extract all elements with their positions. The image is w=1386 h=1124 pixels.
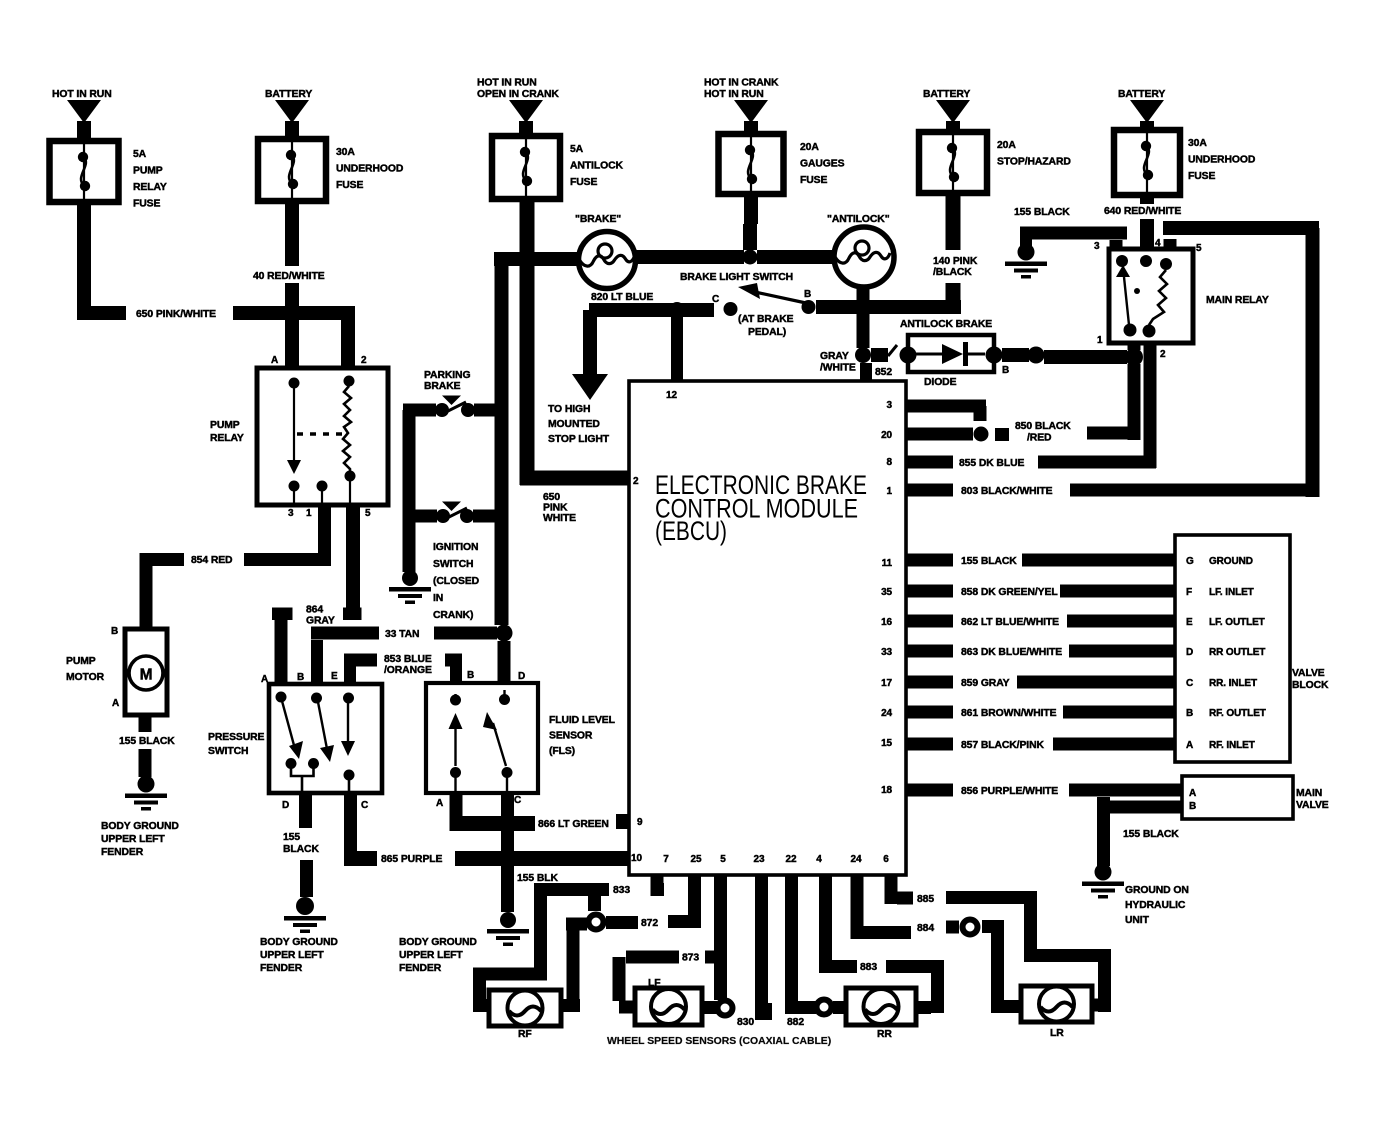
svg-text:A: A bbox=[1186, 740, 1193, 751]
svg-text:TO HIGH: TO HIGH bbox=[548, 404, 590, 415]
svg-text:HOT IN RUN: HOT IN RUN bbox=[704, 89, 764, 100]
svg-text:BODY GROUND: BODY GROUND bbox=[260, 937, 338, 948]
svg-text:UNDERHOOD: UNDERHOOD bbox=[1188, 155, 1256, 166]
svg-text:STOP/HAZARD: STOP/HAZARD bbox=[997, 157, 1071, 168]
svg-text:ANTILOCK: ANTILOCK bbox=[570, 161, 623, 172]
svg-text:BLOCK: BLOCK bbox=[1292, 680, 1329, 691]
svg-text:35: 35 bbox=[881, 587, 892, 598]
svg-text:STOP LIGHT: STOP LIGHT bbox=[548, 434, 610, 445]
svg-text:20A: 20A bbox=[800, 142, 819, 153]
svg-text:5A: 5A bbox=[570, 144, 584, 155]
svg-text:24: 24 bbox=[851, 854, 862, 865]
svg-text:B: B bbox=[1002, 365, 1009, 376]
svg-text:18: 18 bbox=[881, 785, 892, 796]
svg-text:640 RED/WHITE: 640 RED/WHITE bbox=[1104, 206, 1181, 217]
svg-text:"ANTILOCK": "ANTILOCK" bbox=[827, 214, 890, 225]
svg-text:IGNITION: IGNITION bbox=[433, 542, 478, 553]
svg-text:/WHITE: /WHITE bbox=[820, 363, 856, 374]
svg-text:B: B bbox=[1186, 708, 1193, 719]
svg-text:2: 2 bbox=[1160, 349, 1166, 360]
svg-text:C: C bbox=[514, 795, 521, 806]
svg-text:RF. OUTLET: RF. OUTLET bbox=[1209, 708, 1266, 719]
svg-text:FENDER: FENDER bbox=[399, 963, 442, 974]
svg-text:D: D bbox=[282, 800, 289, 811]
svg-text:"BRAKE": "BRAKE" bbox=[575, 214, 621, 225]
svg-text:PUMP: PUMP bbox=[210, 420, 240, 431]
svg-text:850 BLACK: 850 BLACK bbox=[1015, 421, 1071, 432]
svg-text:33: 33 bbox=[881, 647, 892, 658]
svg-text:155 BLACK: 155 BLACK bbox=[1014, 207, 1070, 218]
svg-text:HOT IN CRANK: HOT IN CRANK bbox=[704, 78, 779, 89]
svg-text:885: 885 bbox=[917, 894, 934, 905]
svg-text:IN: IN bbox=[433, 593, 443, 604]
svg-text:6: 6 bbox=[883, 854, 889, 865]
svg-text:BATTERY: BATTERY bbox=[923, 89, 970, 100]
svg-text:155: 155 bbox=[283, 832, 300, 843]
svg-text:A: A bbox=[112, 698, 119, 709]
svg-text:803 BLACK/WHITE: 803 BLACK/WHITE bbox=[961, 486, 1053, 497]
svg-text:LR: LR bbox=[1050, 1028, 1064, 1039]
svg-text:D: D bbox=[1186, 647, 1193, 658]
svg-text:ANTILOCK BRAKE: ANTILOCK BRAKE bbox=[900, 319, 992, 330]
svg-text:17: 17 bbox=[881, 678, 892, 689]
svg-text:650 PINK/WHITE: 650 PINK/WHITE bbox=[136, 309, 216, 320]
svg-text:M: M bbox=[140, 667, 153, 684]
svg-text:865 PURPLE: 865 PURPLE bbox=[381, 854, 443, 865]
svg-text:852: 852 bbox=[875, 367, 892, 378]
svg-text:854 RED: 854 RED bbox=[191, 555, 233, 566]
svg-text:MAIN RELAY: MAIN RELAY bbox=[1206, 295, 1269, 306]
svg-text:PEDAL): PEDAL) bbox=[748, 327, 786, 338]
svg-text:/ORANGE: /ORANGE bbox=[384, 665, 432, 676]
svg-text:16: 16 bbox=[881, 617, 892, 628]
svg-text:LF. OUTLET: LF. OUTLET bbox=[1209, 617, 1265, 628]
svg-text:1: 1 bbox=[1097, 335, 1103, 346]
svg-text:SWITCH: SWITCH bbox=[433, 559, 473, 570]
svg-text:155 BLACK: 155 BLACK bbox=[961, 556, 1017, 567]
svg-text:858 DK GREEN/YEL: 858 DK GREEN/YEL bbox=[961, 587, 1058, 598]
svg-text:872: 872 bbox=[641, 918, 658, 929]
svg-text:FUSE: FUSE bbox=[336, 180, 363, 191]
svg-text:BATTERY: BATTERY bbox=[1118, 89, 1165, 100]
svg-text:/RED: /RED bbox=[1027, 433, 1052, 444]
svg-text:4: 4 bbox=[1155, 238, 1161, 249]
svg-text:(AT BRAKE: (AT BRAKE bbox=[738, 314, 794, 325]
svg-text:C: C bbox=[1186, 678, 1193, 689]
svg-text:GRAY: GRAY bbox=[306, 616, 335, 627]
svg-text:HOT IN RUN: HOT IN RUN bbox=[477, 78, 537, 89]
svg-text:B: B bbox=[1189, 801, 1196, 812]
svg-text:GROUND ON: GROUND ON bbox=[1125, 885, 1189, 896]
svg-text:WHEEL SPEED SENSORS (COAXIAL C: WHEEL SPEED SENSORS (COAXIAL CABLE) bbox=[607, 1036, 831, 1047]
svg-text:E: E bbox=[331, 671, 338, 682]
svg-text:OPEN IN CRANK: OPEN IN CRANK bbox=[477, 89, 559, 100]
svg-text:882: 882 bbox=[787, 1017, 804, 1028]
svg-text:PARKING: PARKING bbox=[424, 370, 470, 381]
svg-text:WHITE: WHITE bbox=[543, 513, 576, 524]
svg-text:859 GRAY: 859 GRAY bbox=[961, 678, 1010, 689]
svg-text:BRAKE: BRAKE bbox=[424, 381, 461, 392]
svg-text:9: 9 bbox=[637, 817, 643, 828]
svg-text:20A: 20A bbox=[997, 140, 1016, 151]
svg-text:FUSE: FUSE bbox=[1188, 171, 1215, 182]
svg-text:863 DK BLUE/WHITE: 863 DK BLUE/WHITE bbox=[961, 647, 1062, 658]
svg-text:B: B bbox=[297, 672, 304, 683]
svg-text:A: A bbox=[271, 355, 278, 366]
svg-text:23: 23 bbox=[754, 854, 765, 865]
svg-text:G: G bbox=[1186, 556, 1194, 567]
svg-text:855 DK BLUE: 855 DK BLUE bbox=[959, 458, 1024, 469]
svg-text:25: 25 bbox=[691, 854, 702, 865]
svg-text:30A: 30A bbox=[336, 147, 355, 158]
svg-text:3: 3 bbox=[288, 508, 294, 519]
svg-text:A: A bbox=[436, 798, 443, 809]
svg-text:883: 883 bbox=[860, 962, 877, 973]
svg-text:11: 11 bbox=[882, 558, 893, 569]
svg-text:HYDRAULIC: HYDRAULIC bbox=[1125, 900, 1186, 911]
svg-text:7: 7 bbox=[663, 854, 669, 865]
svg-text:830: 830 bbox=[737, 1017, 754, 1028]
svg-text:B: B bbox=[467, 670, 474, 681]
svg-text:864: 864 bbox=[306, 605, 323, 616]
svg-text:40 RED/WHITE: 40 RED/WHITE bbox=[253, 271, 325, 282]
svg-text:155 BLACK: 155 BLACK bbox=[119, 736, 175, 747]
svg-text:RELAY: RELAY bbox=[210, 433, 244, 444]
svg-text:RR OUTLET: RR OUTLET bbox=[1209, 647, 1265, 658]
svg-text:UPPER LEFT: UPPER LEFT bbox=[399, 950, 463, 961]
svg-text:8: 8 bbox=[887, 457, 893, 468]
svg-text:FUSE: FUSE bbox=[800, 175, 827, 186]
svg-text:650: 650 bbox=[543, 492, 560, 503]
svg-text:VALVE: VALVE bbox=[1292, 668, 1325, 679]
svg-text:RELAY: RELAY bbox=[133, 182, 167, 193]
svg-text:MOUNTED: MOUNTED bbox=[548, 419, 600, 430]
svg-text:5: 5 bbox=[720, 854, 726, 865]
svg-text:PUMP: PUMP bbox=[133, 166, 163, 177]
svg-text:PUMP: PUMP bbox=[66, 656, 96, 667]
svg-text:33 TAN: 33 TAN bbox=[385, 629, 419, 640]
svg-text:BLACK: BLACK bbox=[283, 844, 319, 855]
svg-text:CRANK): CRANK) bbox=[433, 610, 473, 621]
svg-text:C: C bbox=[712, 294, 719, 305]
svg-text:UNIT: UNIT bbox=[1125, 915, 1150, 926]
svg-text:A: A bbox=[261, 674, 268, 685]
svg-text:MAIN: MAIN bbox=[1296, 788, 1322, 799]
svg-text:DIODE: DIODE bbox=[924, 377, 957, 388]
svg-text:24: 24 bbox=[881, 708, 892, 719]
svg-text:RF: RF bbox=[518, 1029, 532, 1040]
svg-text:820 LT BLUE: 820 LT BLUE bbox=[591, 292, 653, 303]
svg-text:MOTOR: MOTOR bbox=[66, 672, 105, 683]
svg-text:1: 1 bbox=[887, 486, 893, 497]
svg-text:853 BLUE: 853 BLUE bbox=[384, 654, 432, 665]
svg-text:(CLOSED: (CLOSED bbox=[433, 576, 480, 587]
svg-text:GROUND: GROUND bbox=[1209, 556, 1253, 567]
svg-text:5: 5 bbox=[365, 508, 371, 519]
svg-text:30A: 30A bbox=[1188, 138, 1207, 149]
svg-text:BATTERY: BATTERY bbox=[265, 89, 312, 100]
svg-text:3: 3 bbox=[887, 400, 893, 411]
svg-text:856 PURPLE/WHITE: 856 PURPLE/WHITE bbox=[961, 786, 1058, 797]
svg-text:3: 3 bbox=[1094, 241, 1100, 252]
svg-text:A: A bbox=[1189, 788, 1196, 799]
svg-text:B: B bbox=[804, 289, 811, 300]
svg-text:5: 5 bbox=[1196, 243, 1202, 254]
svg-text:F: F bbox=[1186, 587, 1192, 598]
svg-text:873: 873 bbox=[682, 953, 699, 964]
svg-text:E: E bbox=[1186, 617, 1193, 628]
svg-text:GAUGES: GAUGES bbox=[800, 159, 845, 170]
svg-text:10: 10 bbox=[631, 853, 642, 864]
svg-text:866 LT GREEN: 866 LT GREEN bbox=[538, 819, 609, 830]
svg-text:FUSE: FUSE bbox=[570, 177, 597, 188]
svg-text:22: 22 bbox=[786, 854, 797, 865]
svg-text:1: 1 bbox=[306, 508, 312, 519]
svg-text:862 LT BLUE/WHITE: 862 LT BLUE/WHITE bbox=[961, 617, 1059, 628]
svg-text:155 BLACK: 155 BLACK bbox=[1123, 829, 1179, 840]
svg-text:SWITCH: SWITCH bbox=[208, 746, 248, 757]
svg-text:4: 4 bbox=[816, 854, 822, 865]
svg-text:PRESSURE: PRESSURE bbox=[208, 732, 265, 743]
svg-text:C: C bbox=[361, 800, 368, 811]
svg-text:(FLS): (FLS) bbox=[549, 746, 575, 757]
svg-text:D: D bbox=[518, 671, 525, 682]
svg-text:5A: 5A bbox=[133, 149, 147, 160]
svg-text:(EBCU): (EBCU) bbox=[655, 516, 727, 546]
svg-text:FENDER: FENDER bbox=[260, 963, 303, 974]
svg-text:GRAY: GRAY bbox=[820, 351, 849, 362]
svg-text:15: 15 bbox=[881, 738, 892, 749]
svg-text:HOT IN RUN: HOT IN RUN bbox=[52, 89, 112, 100]
svg-text:UPPER LEFT: UPPER LEFT bbox=[260, 950, 324, 961]
svg-text:12: 12 bbox=[666, 390, 677, 401]
svg-text:155 BLK: 155 BLK bbox=[517, 873, 558, 884]
svg-text:LF: LF bbox=[648, 978, 661, 989]
svg-text:FUSE: FUSE bbox=[133, 199, 160, 210]
svg-text:FLUID LEVEL: FLUID LEVEL bbox=[549, 715, 616, 726]
svg-text:UPPER LEFT: UPPER LEFT bbox=[101, 834, 165, 845]
svg-text:SENSOR: SENSOR bbox=[549, 731, 593, 742]
svg-text:2: 2 bbox=[633, 476, 639, 487]
svg-text:BRAKE LIGHT SWITCH: BRAKE LIGHT SWITCH bbox=[680, 272, 793, 283]
svg-text:LF. INLET: LF. INLET bbox=[1209, 587, 1254, 598]
svg-text:UNDERHOOD: UNDERHOOD bbox=[336, 164, 404, 175]
svg-text:B: B bbox=[111, 626, 118, 637]
svg-text:FENDER: FENDER bbox=[101, 847, 144, 858]
svg-text:RR. INLET: RR. INLET bbox=[1209, 678, 1257, 689]
svg-text:833: 833 bbox=[613, 885, 630, 896]
svg-text:861 BROWN/WHITE: 861 BROWN/WHITE bbox=[961, 708, 1057, 719]
svg-text:RF. INLET: RF. INLET bbox=[1209, 740, 1255, 751]
svg-text:PINK: PINK bbox=[543, 503, 568, 514]
svg-text:20: 20 bbox=[881, 430, 892, 441]
svg-text:857 BLACK/PINK: 857 BLACK/PINK bbox=[961, 740, 1044, 751]
svg-text:884: 884 bbox=[917, 923, 934, 934]
svg-text:VALVE: VALVE bbox=[1296, 800, 1329, 811]
svg-text:BODY GROUND: BODY GROUND bbox=[399, 937, 477, 948]
svg-text:2: 2 bbox=[361, 355, 367, 366]
svg-text:/BLACK: /BLACK bbox=[933, 267, 972, 278]
svg-text:140 PINK: 140 PINK bbox=[933, 256, 978, 267]
svg-text:BODY GROUND: BODY GROUND bbox=[101, 821, 179, 832]
svg-text:RR: RR bbox=[877, 1029, 892, 1040]
